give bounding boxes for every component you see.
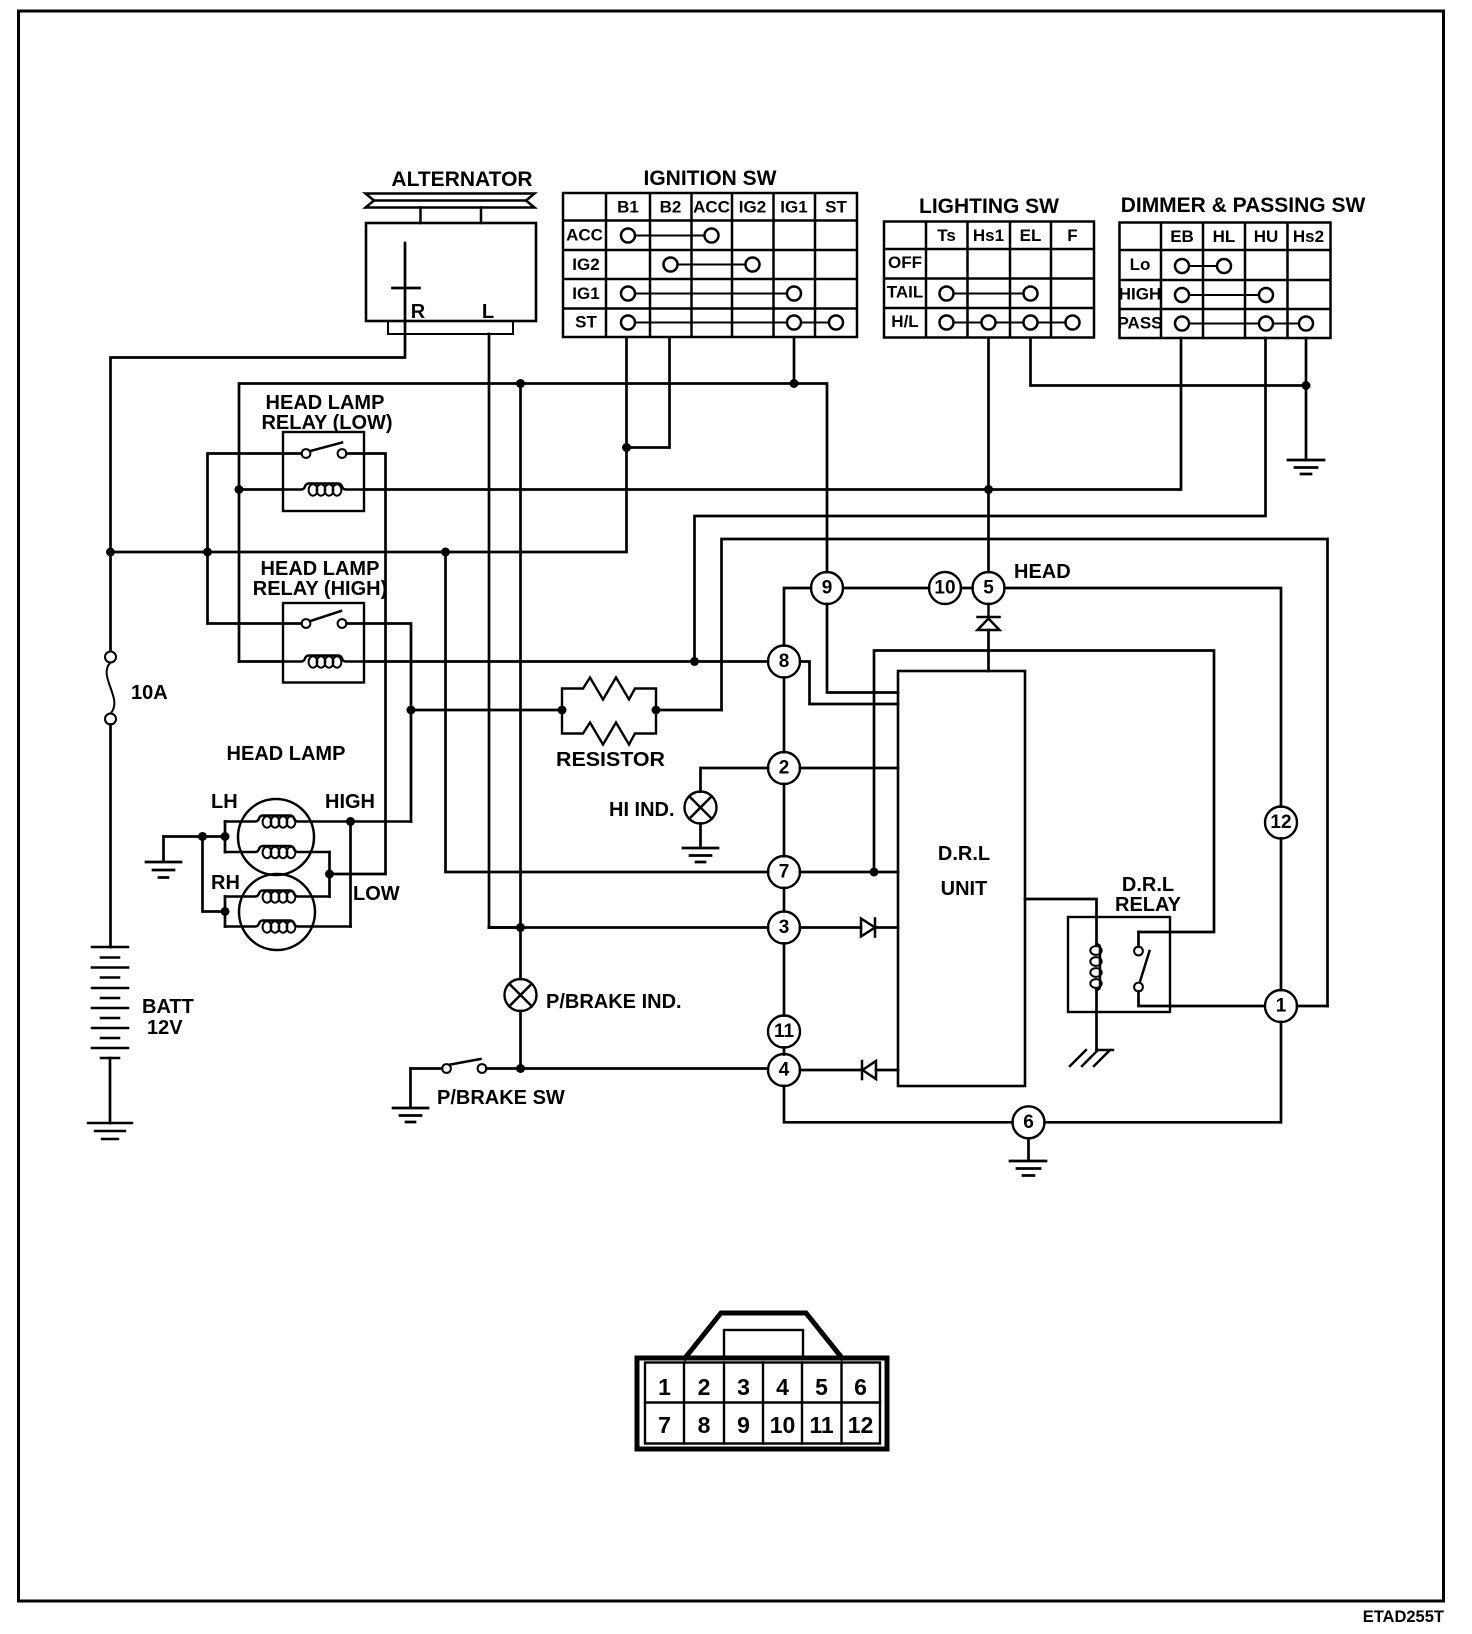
svg-text:LIGHTING SW: LIGHTING SW [919, 195, 1059, 218]
svg-text:LOW: LOW [353, 883, 400, 905]
svg-text:RELAY (LOW): RELAY (LOW) [261, 412, 392, 434]
wire: node 4 bottom to node 6 [784, 1086, 1013, 1122]
wire: relay switch input bracket [208, 454, 302, 624]
wire: P/BRAKE IND feed vertical [519, 384, 522, 1069]
junction dots headlamp commons [198, 832, 230, 916]
connector inner frame [645, 1363, 880, 1444]
wire: node 9 left corner down to node 8 [784, 588, 811, 646]
wire: node 2 right into D.R.L unit [800, 767, 898, 770]
svg-text:D.R.L: D.R.L [1122, 874, 1174, 896]
wire: relay switch bottom to node 1 [1139, 992, 1265, 1007]
junction dot resistor tap [407, 706, 416, 715]
relay K3 switch blade [1140, 951, 1150, 982]
wire: node 12 to node 1 [1280, 839, 1283, 991]
wire: resistor to node 1 line (y=539) [722, 539, 1328, 1006]
dimmer SW contact row Lo [1175, 259, 1189, 273]
svg-text:B1: B1 [617, 198, 639, 217]
wire: node 8 right into D.R.L unit [800, 662, 898, 705]
wire: resistor terminals [411, 709, 722, 712]
ignition SW table grid [563, 193, 857, 337]
wire: diode D3 to D.R.L unit [876, 1069, 898, 1072]
head lamp RH bulb [239, 874, 315, 950]
svg-text:7: 7 [779, 862, 790, 883]
svg-text:IG1: IG1 [780, 198, 807, 217]
wire: battery to ground [109, 1058, 112, 1123]
LH high filament + HIGH wire (y=821.5) [225, 816, 411, 822]
junction dots on IG1 bus [235, 379, 799, 494]
svg-text:HEAD: HEAD [1014, 561, 1071, 583]
connector outer shell [637, 1358, 887, 1449]
svg-text:P/BRAKE IND.: P/BRAKE IND. [546, 991, 682, 1013]
svg-text:1: 1 [1276, 996, 1287, 1017]
wire: node 1 right to y=539 riser [1297, 1005, 1328, 1008]
svg-text:TAIL: TAIL [887, 283, 924, 302]
ground (node 6) [1010, 1138, 1046, 1175]
svg-text:4: 4 [779, 1060, 790, 1081]
dimmer SW row labels [1117, 255, 1162, 333]
fuse 10A (symbol) [105, 652, 116, 663]
svg-text:HIGH: HIGH [325, 791, 375, 813]
ground (P/BRAKE SW) [393, 1069, 428, 1123]
wire: node 3 to node 11 [783, 944, 786, 1016]
node circle 4 [768, 1054, 800, 1086]
junction dot Hs1 on coil line [984, 485, 993, 494]
wire: dimmer HU line (y=516) [695, 338, 1266, 662]
wire: node 2 to node 7 [783, 784, 786, 856]
wire: node 3 to diode D2 [800, 926, 861, 929]
diode D2 (node 3 to DRL unit) [861, 919, 875, 937]
ignition SW column headers [617, 198, 847, 217]
svg-text:1: 1 [658, 1374, 671, 1400]
ground (battery) [88, 1123, 132, 1139]
D.R.L unit box [898, 671, 1025, 1086]
svg-text:B2: B2 [660, 198, 682, 217]
wire: lighting EL to ground with dimmer Hs2 [1031, 338, 1307, 460]
svg-text:R: R [411, 301, 426, 323]
svg-text:ST: ST [575, 313, 597, 332]
svg-text:5: 5 [815, 1374, 828, 1400]
node circle 6 [1013, 1106, 1045, 1138]
lighting SW contact row H/L [940, 316, 954, 330]
wire: node 7 right into D.R.L unit [800, 871, 898, 874]
node circle 1 [1265, 990, 1297, 1022]
svg-text:12: 12 [1270, 812, 1291, 833]
svg-text:RH: RH [211, 872, 240, 894]
svg-text:D.R.L: D.R.L [938, 843, 990, 865]
svg-text:RELAY (HIGH): RELAY (HIGH) [253, 578, 387, 600]
wire: lighting SW Hs1 down to node 5 [987, 338, 990, 572]
wire: L terminal corner into lamp feed [489, 926, 521, 929]
ground (head lamp) [146, 837, 181, 878]
wire: outer loop around D.R.L unit [874, 651, 1214, 933]
lamp HI IND [685, 792, 717, 824]
lighting SW column headers [937, 226, 1077, 245]
node circle 7 [768, 856, 800, 888]
junction dot HIGH node [346, 817, 355, 826]
svg-text:3: 3 [779, 917, 790, 938]
svg-text:HI IND.: HI IND. [609, 799, 675, 821]
lighting SW row labels [887, 253, 924, 331]
relay K1 head lamp relay (low) box [283, 432, 364, 511]
svg-text:6: 6 [1023, 1112, 1034, 1133]
wire: IG1 output bus (y=383.5) across top [239, 338, 827, 662]
alternator mount ticks [421, 208, 482, 224]
relay K2 coil [283, 656, 364, 662]
svg-text:8: 8 [698, 1412, 711, 1438]
junction dot node7/outer loop [870, 868, 879, 877]
dimmer SW contact row PASS [1175, 317, 1189, 331]
node circle 11 [768, 1016, 800, 1048]
ground (HI IND) [683, 824, 718, 863]
svg-text:10: 10 [934, 578, 955, 599]
svg-text:5: 5 [983, 578, 994, 599]
svg-text:4: 4 [776, 1374, 789, 1400]
svg-text:PASS: PASS [1117, 314, 1162, 333]
wire: P/BRAKE SW line to node 4 [411, 1067, 769, 1070]
connector grid [645, 1363, 880, 1444]
ignition SW contact row ACC [621, 229, 635, 243]
RH low filament (y=896.5) [225, 891, 330, 897]
RH high filament (y=926.5) [225, 921, 351, 927]
chassis ground (D.R.L relay) [1070, 1050, 1113, 1066]
dimmer SW column headers [1170, 227, 1324, 246]
ignition SW contact row IG2 [664, 258, 678, 272]
battery BATT 12V [92, 947, 128, 1058]
wire: B1/B2 feed bus (y=552) from battery bus to ignition switch [111, 338, 670, 552]
ground (EL/Hs2) [1288, 460, 1324, 474]
svg-text:Hs1: Hs1 [973, 226, 1004, 245]
diode D1 (node 5 to DRL unit) [978, 604, 1000, 630]
relay K3 coil (vertical) [1097, 944, 1101, 990]
svg-text:Lo: Lo [1130, 255, 1151, 274]
svg-text:12V: 12V [147, 1017, 183, 1039]
dimmer SW table grid [1120, 223, 1331, 339]
svg-text:7: 7 [658, 1412, 671, 1438]
wire: diode D2 to D.R.L unit [875, 926, 898, 929]
connector trapezoid top [685, 1313, 842, 1358]
relay K1 switch contacts [302, 449, 311, 458]
relay K2 switch blade [311, 611, 342, 621]
wire: node 7 feed from y=552 bus [446, 552, 769, 872]
wire: diode D1 into D.R.L unit top [987, 630, 990, 671]
svg-text:HEAD LAMP: HEAD LAMP [227, 743, 346, 765]
relay K2 switch contacts [302, 619, 311, 628]
wire: HI IND to node 2 [701, 768, 769, 792]
dimmer SW contact row HIGH [1175, 288, 1189, 302]
wire: node 7 to node 3 [783, 888, 786, 911]
wire: K2 switch output to head lamp HIGH [347, 624, 412, 822]
junction dot L/lamp wire [516, 923, 525, 932]
svg-text:11: 11 [774, 1021, 795, 1042]
node circle 10 [929, 572, 961, 604]
wire: node 4 to diode D3 [800, 1069, 862, 1072]
wire: node 1 bottom to node 6 [1045, 1022, 1282, 1122]
head lamp LH bulb [238, 799, 314, 875]
alternator internal symbol [393, 287, 420, 290]
svg-text:ST: ST [825, 198, 847, 217]
svg-text:P/BRAKE SW: P/BRAKE SW [437, 1087, 565, 1109]
svg-text:HL: HL [1213, 227, 1236, 246]
svg-text:IGNITION SW: IGNITION SW [644, 167, 777, 190]
svg-text:12: 12 [848, 1412, 874, 1438]
svg-text:BATT: BATT [142, 996, 194, 1018]
svg-text:HIGH: HIGH [1119, 285, 1162, 304]
ignition SW contact row IG1 [621, 287, 635, 301]
svg-text:8: 8 [779, 651, 790, 672]
relay K1 switch blade [311, 443, 343, 452]
node circle 8 [768, 646, 800, 678]
relay K2 head lamp relay (high) box [283, 603, 364, 683]
svg-text:EB: EB [1170, 227, 1194, 246]
wire: node 3 line (y=927.5) [489, 926, 768, 929]
switch P/BRAKE SW blade [451, 1059, 481, 1065]
svg-text:9: 9 [822, 578, 833, 599]
node circle 5 [973, 572, 1005, 604]
relay K1 coil [283, 484, 364, 490]
relay K3 D.R.L relay box [1068, 917, 1170, 1012]
svg-text:ACC: ACC [693, 198, 730, 217]
svg-text:2: 2 [698, 1374, 711, 1400]
svg-text:RESISTOR: RESISTOR [556, 749, 666, 771]
junction dots resistor terminals [558, 706, 661, 715]
svg-text:Hs2: Hs2 [1293, 227, 1324, 246]
alternator bottom connector bracket [388, 321, 513, 334]
junction dot LOW node [325, 870, 334, 879]
wire: LH filament common + ground link [164, 822, 226, 927]
svg-text:L: L [482, 301, 494, 323]
svg-text:OFF: OFF [888, 253, 922, 272]
wire: K1 switch output to head lamp LOW [330, 454, 386, 875]
svg-text:Ts: Ts [937, 226, 956, 245]
wire: fuse to battery [109, 725, 112, 948]
lighting SW contact row TAIL [940, 287, 954, 301]
svg-text:HEAD LAMP: HEAD LAMP [261, 558, 380, 580]
svg-text:ACC: ACC [566, 226, 603, 245]
svg-text:DIMMER & PASSING SW: DIMMER & PASSING SW [1121, 194, 1366, 217]
svg-text:HEAD LAMP: HEAD LAMP [266, 392, 385, 414]
node circle 2 [768, 752, 800, 784]
ignition SW contact row ST [621, 316, 635, 330]
wire: K1 coil line (y=489.5) to dimmer EB [239, 338, 1181, 490]
connector latch rect [724, 1330, 803, 1358]
svg-text:H/L: H/L [891, 312, 918, 331]
svg-text:IG2: IG2 [739, 198, 766, 217]
alternator body box [366, 223, 536, 321]
connector pin numbers [658, 1374, 873, 1438]
svg-text:10: 10 [770, 1412, 796, 1438]
LH low filament (y=852) [225, 846, 330, 852]
svg-text:IG1: IG1 [572, 284, 599, 303]
svg-text:2: 2 [779, 758, 790, 779]
svg-text:F: F [1067, 226, 1077, 245]
wire: alternator R terminal to left battery bus [111, 243, 406, 651]
svg-text:10A: 10A [131, 682, 168, 704]
ignition SW row labels [566, 226, 603, 332]
svg-text:HU: HU [1254, 227, 1279, 246]
svg-text:9: 9 [737, 1412, 750, 1438]
wire: node 8 to node 2 [783, 678, 786, 753]
resistor (parallel pair) body [562, 678, 656, 745]
junction dot P/BRAKE IND / SW [516, 1064, 525, 1073]
wire: K2 coil line (y=661.5) to node 8 [239, 660, 768, 663]
wire: LOW node risers [328, 852, 331, 897]
node circle 9 [811, 572, 843, 604]
wire: HIGH node to RH high filament [349, 822, 352, 927]
wire: relay switch top to outer loop [1137, 932, 1140, 947]
svg-text:ETAD255T: ETAD255T [1363, 1608, 1444, 1626]
svg-text:UNIT: UNIT [941, 878, 988, 900]
svg-text:6: 6 [854, 1374, 867, 1400]
svg-text:3: 3 [737, 1374, 750, 1400]
svg-text:11: 11 [809, 1412, 834, 1438]
wire: D.R.L unit output to relay coil [1025, 899, 1097, 944]
svg-text:LH: LH [211, 791, 238, 813]
svg-text:RELAY: RELAY [1115, 894, 1182, 916]
wire: relay coil to chassis ground [1095, 990, 1098, 1050]
svg-text:ALTERNATOR: ALTERNATOR [391, 168, 532, 191]
wire: node 5 right to node 12 [1005, 588, 1282, 807]
switch P/BRAKE SW contacts [442, 1064, 451, 1073]
junction dot EL/Hs2 [1302, 381, 1311, 390]
node circle 12 [1265, 807, 1297, 839]
junction dots on y=552 bus [106, 443, 631, 557]
wire: alternator L terminal down to node 3 line [488, 334, 491, 928]
node circle 3 [768, 912, 800, 944]
lighting SW table grid [884, 222, 1094, 338]
wire: node 9 to nodes 10/5 [843, 587, 973, 590]
wire: node 9 bottom into D.R.L unit [827, 604, 898, 693]
svg-text:EL: EL [1020, 226, 1042, 245]
svg-text:IG2: IG2 [572, 255, 599, 274]
wire: node 11 to node 4 [783, 1048, 786, 1055]
relay K3 switch contacts [1134, 947, 1143, 956]
lamp P/BRAKE IND [505, 979, 537, 1011]
diode D3 (DRL unit to node 4) [862, 1061, 876, 1079]
alternator pulley/belt symbol [366, 194, 535, 208]
junction dot on node8 line [690, 657, 699, 666]
